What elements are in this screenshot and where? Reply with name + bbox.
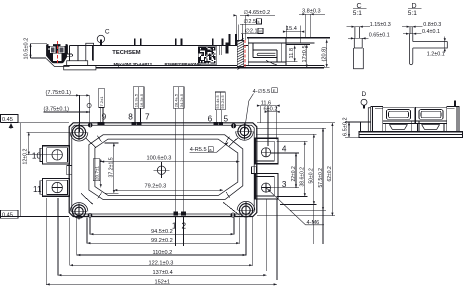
svg-text:5:1: 5:1 [353, 10, 362, 17]
dim 100.6±0.3 [101, 155, 240, 162]
dim 10.5±0.2 left [24, 38, 47, 60]
terminal assembly right [415, 107, 446, 123]
pin shanks [218, 45, 220, 55]
svg-text:34.2±.5: 34.2±.5 [179, 93, 184, 107]
terminal 3 [255, 174, 278, 200]
side tab left [67, 165, 72, 174]
svg-text:P1M6B31PBA60NH: P1M6B31PBA60NH [165, 62, 201, 67]
ring inner octagon [95, 139, 238, 195]
dark pin front [225, 43, 228, 54]
top tab [86, 43, 94, 61]
right block [447, 107, 459, 132]
svg-text:4: 4 [282, 145, 287, 154]
4-M6 leader [266, 188, 324, 226]
body bottom line [64, 65, 325, 67]
dim 0.65±0.1 [348, 37, 369, 39]
left cap [368, 108, 370, 132]
QR code pattern [199, 47, 216, 64]
terminal 3 extension lines down [266, 199, 268, 271]
pin position dim boxes Cc [173, 87, 184, 211]
ring outer octagon [89, 135, 243, 200]
right terminal block [247, 38, 330, 66]
svg-text:20.7±1: 20.7±1 [94, 166, 99, 180]
mounting hole bottom-right [237, 201, 255, 218]
dim 57.5±0.2 [256, 128, 326, 244]
balloon pin C [100, 39, 102, 45]
svg-text:5: 5 [224, 114, 229, 123]
dim 37.2±1.5 vertical [105, 143, 119, 193]
svg-text:37.2±1.5: 37.2±1.5 [108, 157, 114, 177]
flatness box top [1, 115, 19, 123]
mounting hole top-left [70, 124, 88, 141]
body outline [64, 45, 325, 70]
center target [154, 162, 170, 178]
pin position dim boxes Dd [215, 92, 225, 122]
bottom edge extension to box [1, 216, 70, 218]
svg-text:0.8±0.3: 0.8±0.3 [423, 22, 441, 28]
hatched sectioned terminal [237, 39, 244, 70]
flatness box bottom [1, 210, 19, 218]
svg-text:10.5±0.2: 10.5±0.2 [24, 38, 30, 60]
svg-text:4-∅5.5: 4-∅5.5 [253, 88, 271, 95]
dim 79.2±0.3 [114, 184, 223, 192]
svg-text:a: a [209, 147, 212, 152]
terminal 10 [40, 146, 70, 164]
left side tab [361, 122, 369, 132]
svg-text:2: 2 [182, 221, 187, 230]
mounting hole bottom-left [70, 203, 88, 220]
svg-text:12±0.2: 12±0.2 [22, 149, 28, 165]
svg-text:1.2±0.1: 1.2±0.1 [427, 52, 445, 58]
pin D [409, 27, 412, 65]
svg-text:4-M6: 4-M6 [307, 220, 320, 226]
module outline outer [69, 123, 257, 217]
svg-text:0.4±0.1: 0.4±0.1 [422, 29, 440, 35]
red centerline [57, 41, 59, 65]
svg-text:5:1: 5:1 [408, 10, 417, 17]
extension line hole center [79, 95, 81, 132]
locating dot bottom-left [88, 213, 93, 218]
baseplate [359, 132, 463, 138]
svg-text:TECHSEM: TECHSEM [112, 50, 141, 56]
corner transition diagonals [86, 139, 96, 148]
svg-text:6.5±0.2: 6.5±0.2 [342, 117, 348, 136]
svg-text:9: 9 [102, 112, 107, 121]
QR code [198, 47, 216, 65]
connector nub [66, 54, 72, 56]
svg-text:3.8±0.3: 3.8±0.3 [302, 9, 321, 15]
module outline inner [72, 125, 254, 214]
tall pins near section [229, 34, 231, 46]
svg-text:11.8: 11.8 [289, 48, 295, 58]
svg-text:d: d [10, 125, 13, 130]
extension lines vertical [89, 218, 91, 235]
svg-text:7: 7 [145, 112, 150, 121]
svg-text:100.6±0.3: 100.6±0.3 [147, 155, 172, 161]
callout 4-R5.5 [190, 142, 229, 153]
lower trap right [417, 123, 444, 131]
center block [412, 121, 419, 132]
datum vertical line [20, 123, 22, 217]
extension line pin with circle [89, 95, 91, 124]
side tab right [252, 167, 257, 174]
baseplate [96, 67, 324, 69]
terminal 11 [40, 178, 70, 196]
dim 6.5±0.2 [342, 117, 371, 137]
dim 0.8±0.3 [402, 26, 423, 28]
locating dot top-left [88, 123, 93, 128]
svg-text:11: 11 [33, 185, 42, 194]
top edge pins 9,8,7,6,5 [98, 122, 105, 125]
svg-text:D: D [362, 91, 367, 98]
pedestal under connector [67, 61, 88, 66]
dim (20.8) vertical [322, 40, 330, 68]
svg-text:k: k [258, 19, 260, 24]
left block [371, 107, 383, 132]
svg-text:0.45: 0.45 [2, 213, 13, 219]
connector housing chamfer [46, 59, 69, 67]
svg-text:7.2±1: 7.2±1 [99, 96, 104, 107]
pin position dim box A [99, 88, 104, 122]
dim 22±0.2 [271, 153, 299, 188]
dim 1.15±0.3 [347, 26, 370, 28]
svg-text:m: m [259, 28, 263, 33]
svg-text:0.65±0.1: 0.65±0.1 [369, 32, 390, 38]
ring chamfer ticks [98, 136, 102, 142]
svg-text:C: C [105, 29, 110, 36]
locating dot bottom-right [231, 213, 236, 218]
svg-text:MIpcs0N1 3D-AAB12: MIpcs0N1 3D-AAB12 [114, 62, 153, 67]
svg-text:28.4±.5: 28.4±.5 [174, 93, 179, 107]
dim 1.2±0.1 [444, 37, 446, 54]
pin C [354, 27, 364, 69]
svg-text:6: 6 [208, 114, 213, 123]
right pin [454, 100, 456, 106]
terminal assembly left [383, 107, 414, 123]
dim 0.4±0.1 [403, 33, 421, 35]
svg-text:8: 8 [128, 112, 133, 121]
terminal 4 [255, 138, 278, 164]
red centerline of terminal [244, 40, 246, 68]
foot block [64, 66, 96, 70]
connector (black) [46, 41, 73, 67]
svg-text:E: E [273, 88, 276, 93]
svg-text:16.3±.5: 16.3±.5 [139, 93, 144, 107]
dim 38.6±0.2 [276, 141, 307, 196]
dim 11.8 vertical [286, 45, 298, 61]
dim 17±0.5 vertical [286, 45, 310, 68]
bottom pins 1,2 [173, 211, 178, 215]
top edge extension to box [1, 122, 70, 124]
dim 20.7±1 vertical [93, 159, 102, 188]
svg-text:0.45: 0.45 [2, 117, 13, 123]
top pins pairs [134, 39, 136, 46]
dim 62±0.2 [257, 123, 335, 216]
svg-text:10.3±.5: 10.3±.5 [134, 93, 139, 107]
pin position dim boxes B [133, 87, 144, 122]
svg-text:1.15±0.3: 1.15±0.3 [370, 22, 391, 28]
svg-text:10: 10 [32, 152, 42, 161]
dim 12±0.2 left [22, 132, 70, 164]
pin D bar [413, 42, 448, 49]
svg-text:59.2±.5: 59.2±.5 [220, 95, 225, 109]
locating dot top-right [231, 123, 236, 128]
balloon C circle [97, 35, 104, 42]
dim 50±0.2 [256, 134, 317, 244]
svg-text:79.2±0.3: 79.2±0.3 [145, 184, 167, 190]
lower trap left [385, 123, 412, 131]
mounting hole top-right [236, 123, 254, 140]
mid band [383, 120, 447, 122]
